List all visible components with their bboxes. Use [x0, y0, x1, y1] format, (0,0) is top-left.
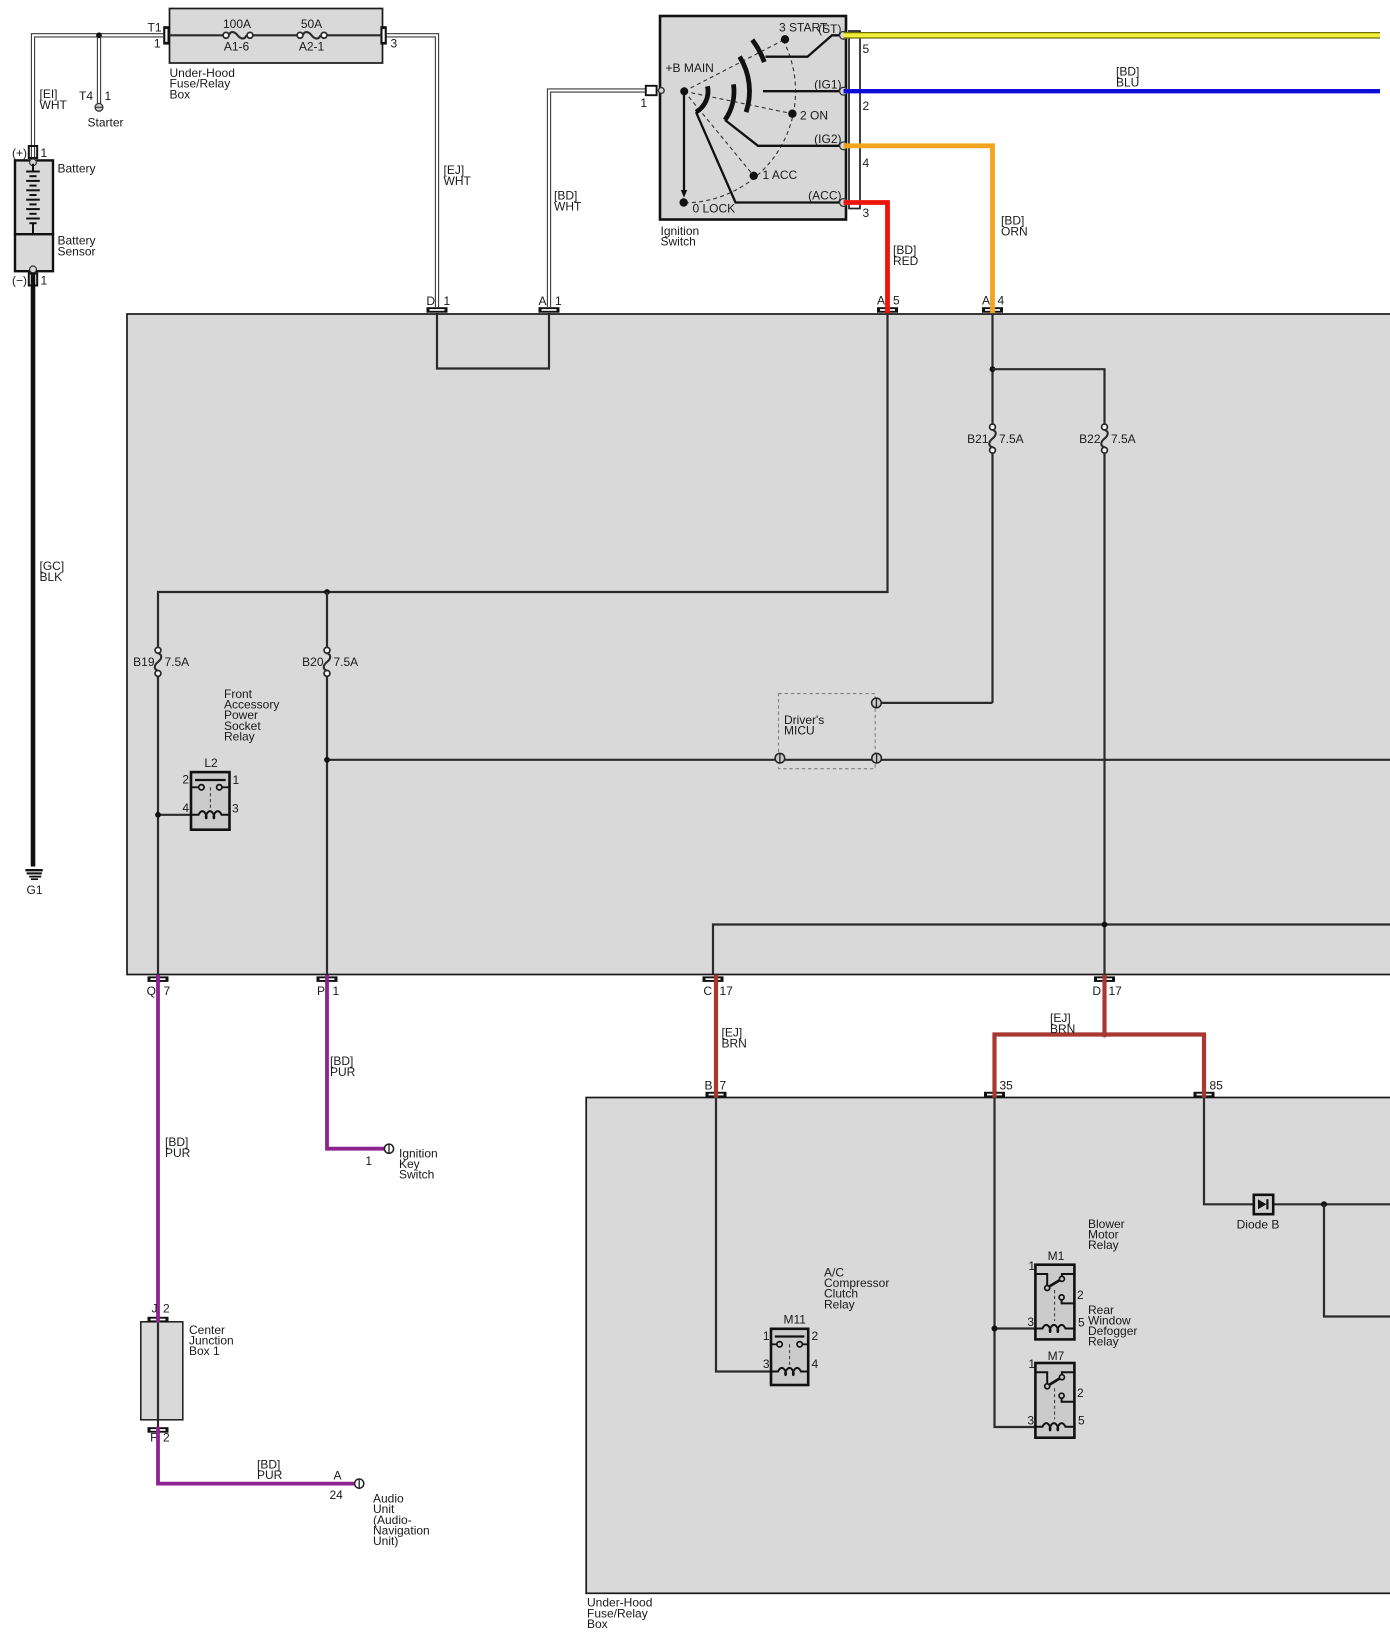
- svg-text:2: 2: [863, 99, 870, 113]
- wire IG1 [BD] BLU: [844, 89, 1381, 93]
- svg-text:B22: B22: [1079, 432, 1101, 446]
- svg-text:Relay: Relay: [1088, 1335, 1119, 1349]
- svg-text:4: 4: [998, 294, 1005, 308]
- node after diode: [1321, 1201, 1327, 1207]
- wire [EJ] WHT to connector D1 (double line): [387, 34, 439, 307]
- svg-text:BLU: BLU: [1116, 75, 1139, 89]
- svg-text:1: 1: [555, 294, 562, 308]
- svg-text:RED: RED: [893, 254, 919, 268]
- connector J 2: [148, 1302, 171, 1323]
- svg-text:M7: M7: [1048, 1349, 1065, 1363]
- svg-text:ORN: ORN: [1001, 224, 1028, 238]
- starter terminal T4: [79, 89, 124, 130]
- wire drop after diode: [1324, 1204, 1390, 1316]
- battery sensor body: [15, 234, 96, 273]
- fuse A2-1 50A: [297, 17, 327, 54]
- svg-text:(ACC): (ACC): [808, 188, 841, 202]
- svg-text:A: A: [538, 294, 546, 308]
- fuse B22 7.5A: [1079, 424, 1136, 974]
- svg-text:Starter: Starter: [88, 116, 124, 130]
- ignition key switch terminal: [365, 1144, 437, 1182]
- svg-text:+B MAIN: +B MAIN: [666, 61, 714, 75]
- svg-text:7.5A: 7.5A: [1111, 432, 1136, 446]
- IG1 contact line: [763, 90, 840, 92]
- MICU terminal (top right): [872, 698, 882, 708]
- relay M7: [1027, 1349, 1085, 1438]
- svg-text:(−): (−): [12, 274, 27, 288]
- ignition switch output connector block: [849, 31, 860, 209]
- svg-text:Box 1: Box 1: [189, 1344, 220, 1358]
- svg-text:100A: 100A: [223, 17, 251, 31]
- wire from A4 down: [991, 313, 993, 424]
- connector 85: [1194, 1079, 1224, 1098]
- label [EJ] WHT: [444, 163, 472, 188]
- wire ST yellow: [844, 32, 1381, 39]
- connector C 17: [703, 976, 734, 998]
- node 2 ON: [788, 110, 796, 118]
- label [GC] BLK: [40, 559, 65, 584]
- audio unit terminal A 24: [330, 1469, 430, 1548]
- svg-text:2: 2: [163, 1431, 170, 1445]
- svg-text:WHT: WHT: [444, 174, 472, 188]
- ACC contact line: [696, 112, 840, 202]
- svg-text:24: 24: [330, 1488, 344, 1502]
- wire B20 branch down: [326, 592, 328, 647]
- rear window defogger relay caption: [1088, 1303, 1137, 1349]
- wire inside top fuse box: [170, 34, 381, 36]
- svg-text:1: 1: [233, 773, 240, 787]
- driver's MICU dashed box: [779, 694, 876, 769]
- svg-text:Q: Q: [147, 984, 156, 998]
- blower motor relay caption: [1088, 1217, 1125, 1252]
- wire C17 riser and rail: [713, 925, 1390, 975]
- connector F 2: [148, 1427, 171, 1445]
- node BRN split: [1102, 1032, 1108, 1038]
- wiper arc (ST): [752, 40, 764, 62]
- battery cell plates: [26, 164, 40, 234]
- svg-text:(IG1): (IG1): [814, 77, 841, 91]
- wire 35 riser to M1/M7: [995, 1098, 1038, 1428]
- svg-text:A: A: [334, 1469, 342, 1483]
- svg-text:5: 5: [893, 294, 900, 308]
- svg-text:50A: 50A: [301, 17, 322, 31]
- connector A 4: [982, 294, 1005, 314]
- connector P 1: [317, 976, 340, 998]
- IG2 terminal circle: [840, 142, 848, 150]
- fuse B21 7.5A: [967, 424, 1024, 703]
- svg-text:D: D: [426, 294, 435, 308]
- svg-text:2: 2: [1077, 1386, 1084, 1400]
- svg-text:5: 5: [863, 42, 870, 56]
- ST terminal circle: [840, 31, 848, 39]
- under-hood fuse/relay box (bottom) body: [586, 1098, 1390, 1632]
- svg-text:B: B: [704, 1079, 712, 1093]
- svg-text:85: 85: [1210, 1079, 1224, 1093]
- battery body: [15, 159, 96, 234]
- ignition switch pin 1 connector: [640, 86, 664, 110]
- svg-text:1: 1: [365, 1154, 372, 1168]
- svg-text:P: P: [317, 984, 325, 998]
- svg-text:7: 7: [720, 1079, 727, 1093]
- svg-text:5: 5: [1078, 1316, 1085, 1330]
- wire [EJ] BRN from D17 split to 35 and 85: [995, 975, 1205, 1095]
- svg-text:1: 1: [154, 37, 161, 51]
- svg-text:BRN: BRN: [1050, 1022, 1075, 1036]
- wire [BD] WHT ignition switch pin1 to connector A1 (double line): [547, 89, 645, 307]
- wire D1 to A1 inside main box: [437, 313, 549, 369]
- svg-text:7.5A: 7.5A: [165, 655, 190, 669]
- wiper arc (IG2): [725, 84, 734, 120]
- IG2 contact line: [725, 120, 840, 146]
- dashed radial +B to ACC: [684, 91, 754, 176]
- battery negative connector (-) 1: [12, 274, 48, 288]
- svg-text:5: 5: [1078, 1414, 1085, 1428]
- connector T1 pin 1: [147, 21, 169, 51]
- svg-text:2: 2: [1077, 1288, 1084, 1302]
- svg-text:1: 1: [1028, 1259, 1035, 1273]
- relay M1: [1027, 1249, 1085, 1339]
- svg-text:WHT: WHT: [554, 199, 582, 213]
- svg-text:1: 1: [41, 274, 48, 288]
- svg-text:3: 3: [763, 1357, 770, 1371]
- wire [GC] BLK to ground: [31, 274, 36, 867]
- svg-text:Relay: Relay: [224, 729, 255, 743]
- svg-text:A: A: [877, 294, 885, 308]
- wire tap to M1 pin3: [995, 1327, 1038, 1329]
- svg-text:Relay: Relay: [824, 1297, 855, 1311]
- svg-text:A2-1: A2-1: [299, 40, 325, 54]
- svg-text:1: 1: [763, 1329, 770, 1343]
- svg-text:4: 4: [863, 156, 870, 170]
- connector B 7: [704, 1079, 726, 1098]
- svg-text:2 ON: 2 ON: [800, 108, 828, 122]
- dashed radial +B to ON: [684, 91, 792, 113]
- svg-text:4: 4: [182, 801, 189, 815]
- connector A 5: [877, 294, 900, 314]
- node L2 tap: [155, 812, 161, 818]
- wire from A5 down and across to B19/B20 rail: [158, 313, 888, 647]
- svg-text:3: 3: [391, 37, 398, 51]
- svg-text:1 ACC: 1 ACC: [763, 168, 798, 182]
- connector pin 3 (top fuse box right): [380, 26, 397, 50]
- svg-text:7.5A: 7.5A: [334, 655, 359, 669]
- main under-dash fuse box (big middle) body: [127, 314, 1390, 975]
- label [EI] WHT: [40, 87, 68, 112]
- wire IG2 [BD] ORN: [844, 146, 993, 307]
- svg-text:Relay: Relay: [1088, 1238, 1119, 1252]
- node MICU rail tap: [324, 757, 330, 763]
- svg-text:1: 1: [333, 984, 340, 998]
- connector D 1: [426, 294, 450, 313]
- svg-text:17: 17: [1109, 984, 1123, 998]
- connector A 1: [538, 294, 562, 313]
- wire 85 to diode B and beyond: [1204, 1098, 1390, 1205]
- svg-text:7.5A: 7.5A: [999, 432, 1024, 446]
- svg-text:1: 1: [444, 294, 451, 308]
- svg-text:Diode B: Diode B: [1237, 1218, 1280, 1232]
- wiper arc (ACC): [696, 86, 708, 112]
- diode B: [1237, 1195, 1280, 1232]
- fuse B20 7.5A: [302, 647, 358, 974]
- node A4 split: [990, 366, 996, 372]
- wire [BD] PUR from P1 to ignition key switch: [327, 975, 384, 1149]
- svg-text:(ST): (ST): [818, 22, 841, 36]
- svg-text:BLK: BLK: [40, 570, 63, 584]
- svg-text:PUR: PUR: [165, 1146, 191, 1160]
- svg-text:G1: G1: [26, 883, 42, 897]
- svg-text:3: 3: [1027, 1315, 1034, 1329]
- wire B21 to driver's MICU: [881, 702, 993, 704]
- connector D 17: [1092, 976, 1122, 998]
- ACC terminal circle: [840, 199, 848, 207]
- svg-text:3: 3: [1027, 1414, 1034, 1428]
- svg-text:T1: T1: [147, 21, 161, 35]
- center junction box 1: [141, 1322, 234, 1427]
- svg-text:J: J: [152, 1302, 158, 1316]
- svg-text:PUR: PUR: [330, 1065, 356, 1079]
- svg-text:L2: L2: [204, 756, 218, 770]
- svg-text:2: 2: [163, 1302, 170, 1316]
- ignition switch caption: [661, 224, 700, 249]
- wire B7 to M11 pin3: [716, 1098, 771, 1372]
- svg-text:D: D: [1092, 984, 1101, 998]
- ignition switch internal labels: [666, 21, 842, 216]
- svg-text:1: 1: [105, 89, 112, 103]
- node +B MAIN: [680, 87, 688, 95]
- wire [BD] PUR from Q7 to J2: [156, 975, 160, 1318]
- wire MICU rail from B20: [327, 759, 1390, 761]
- svg-text:Battery: Battery: [58, 162, 96, 176]
- svg-text:(+): (+): [12, 146, 27, 160]
- svg-text:PUR: PUR: [257, 1468, 283, 1482]
- svg-text:4: 4: [812, 1357, 819, 1371]
- ignition switch body: [660, 16, 846, 220]
- svg-text:B21: B21: [967, 432, 989, 446]
- wire L2 pin4 tap: [158, 814, 191, 816]
- svg-text:A: A: [982, 294, 990, 308]
- svg-text:3: 3: [863, 206, 870, 220]
- IG1 terminal circle: [840, 87, 848, 95]
- MICU terminal (bottom left): [775, 753, 785, 763]
- svg-text:M1: M1: [1048, 1249, 1065, 1263]
- wire ACC [BD] RED: [844, 203, 888, 308]
- wire [EI] WHT battery(+) to T1 (double line): [31, 34, 163, 159]
- +B MAIN feed line with arrow to LOCK: [681, 95, 687, 198]
- svg-text:2: 2: [182, 773, 189, 787]
- svg-text:1: 1: [41, 146, 48, 160]
- node B20 tap on rail: [324, 589, 330, 595]
- front accessory power socket relay caption: [224, 687, 279, 743]
- fuse B19 7.5A: [133, 647, 189, 974]
- ST contact line: [766, 35, 841, 56]
- svg-text:A1-6: A1-6: [224, 40, 250, 54]
- label [BD] WHT: [554, 189, 582, 214]
- relay L2: [182, 756, 239, 830]
- A/C compressor clutch relay caption: [824, 1266, 889, 1312]
- svg-text:C: C: [703, 984, 712, 998]
- node 1 ACC: [750, 172, 758, 180]
- wiper arc (IG1): [740, 57, 750, 113]
- svg-text:17: 17: [720, 984, 734, 998]
- svg-text:B20: B20: [302, 655, 324, 669]
- node junction at starter tap: [96, 32, 102, 38]
- under-hood fuse/relay box (top) body: [170, 9, 383, 102]
- pin number labels 5 2 4 3: [863, 42, 870, 220]
- node D17 rail junction: [1102, 922, 1108, 928]
- svg-text:MICU: MICU: [784, 723, 815, 737]
- node 0 LOCK: [680, 198, 688, 206]
- connector Q 7: [147, 976, 171, 998]
- svg-text:7: 7: [164, 984, 171, 998]
- MICU terminal (bottom right): [872, 753, 882, 763]
- svg-text:M11: M11: [784, 1313, 807, 1327]
- svg-text:T4: T4: [79, 89, 93, 103]
- svg-text:3: 3: [232, 801, 239, 815]
- svg-text:2: 2: [812, 1329, 819, 1343]
- svg-text:Switch: Switch: [661, 235, 696, 249]
- ignition switch rotation dashed arc: [684, 40, 796, 203]
- dashed radial +B to START: [684, 39, 785, 91]
- wire [BD] PUR from F2 to audio unit: [158, 1433, 355, 1484]
- svg-text:WHT: WHT: [40, 98, 68, 112]
- node M1/M7 tap: [992, 1326, 998, 1332]
- svg-text:0 LOCK: 0 LOCK: [693, 201, 736, 215]
- svg-text:Box: Box: [170, 87, 191, 101]
- svg-text:35: 35: [1000, 1079, 1014, 1093]
- relay M11: [763, 1313, 819, 1386]
- svg-text:(IG2): (IG2): [814, 132, 841, 146]
- svg-text:B19: B19: [133, 655, 155, 669]
- ground G1: [25, 870, 42, 879]
- battery positive connector (+) 1: [12, 146, 48, 160]
- svg-text:Box: Box: [587, 1617, 608, 1631]
- svg-text:Unit): Unit): [373, 1534, 398, 1548]
- svg-text:BRN: BRN: [722, 1036, 747, 1050]
- wire stub to starter terminal (double line): [97, 37, 100, 103]
- svg-text:1: 1: [640, 96, 647, 110]
- wire [EJ] BRN from C17 to B7: [714, 975, 718, 1095]
- connector 35: [984, 1079, 1013, 1098]
- svg-text:1: 1: [1028, 1357, 1035, 1371]
- svg-text:Switch: Switch: [399, 1168, 434, 1182]
- svg-text:Sensor: Sensor: [58, 244, 96, 258]
- wire A4 split across to B22: [993, 369, 1105, 424]
- fuse A1-6 100A: [223, 17, 253, 54]
- node 3 START: [781, 35, 789, 43]
